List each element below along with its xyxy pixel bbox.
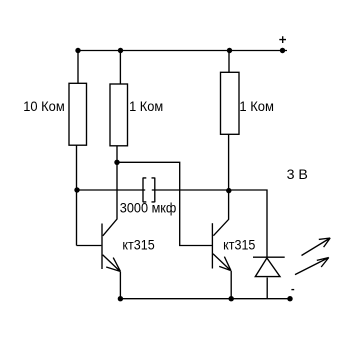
svg-text:10 Ком: 10 Ком xyxy=(23,98,64,114)
svg-text:1 Ком: 1 Ком xyxy=(239,98,274,114)
svg-text:3 В: 3 В xyxy=(287,166,308,182)
svg-text:кт315: кт315 xyxy=(223,237,255,253)
svg-text:кт315: кт315 xyxy=(122,237,154,253)
svg-text:1 Ком: 1 Ком xyxy=(129,98,163,114)
svg-text:3000 мкф: 3000 мкф xyxy=(120,200,177,216)
